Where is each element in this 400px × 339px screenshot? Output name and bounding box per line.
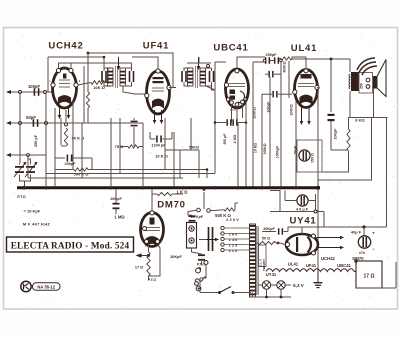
sound waves — [357, 58, 377, 75]
wire DM70 resistor top — [148, 244, 150, 253]
tube UL41 envelope — [295, 70, 318, 108]
mains terminal — [204, 261, 208, 265]
svg-text:2 7: 2 7 — [63, 66, 67, 70]
capacitor 1200pF — [151, 136, 166, 148]
tube UCH42 grid detail — [59, 74, 70, 88]
coil IF1 primary — [108, 68, 114, 86]
tube UY41 cathode arc — [308, 237, 312, 253]
pin UCH42 top-left — [56, 68, 60, 72]
svg-text:100KΩ: 100KΩ — [263, 143, 267, 154]
tube DM70 envelope — [141, 213, 164, 247]
capacitor 100pF — [28, 84, 41, 96]
tube DM70 anode bar — [150, 218, 155, 225]
wire UF41 anode to IF2 — [169, 71, 176, 88]
tube UBC41 grid dashes — [229, 84, 245, 87]
pin DM70 bottom-left — [145, 240, 149, 244]
capacitor jack bottom — [198, 254, 205, 260]
wire 50K top link — [61, 110, 66, 146]
tap circle 123 — [221, 242, 238, 247]
pin UY41 bottom-right — [312, 251, 316, 255]
node 50pF j1 — [19, 122, 22, 125]
wire x238 vertical — [237, 123, 239, 188]
label UCH42 pin digits — [49, 66, 81, 84]
svg-text:UCH42: UCH42 — [321, 256, 335, 261]
node bus j8 — [260, 186, 263, 189]
svg-text:250: 250 — [360, 83, 364, 89]
wire 1200 link — [150, 132, 172, 139]
capacitor IF2 right — [206, 68, 214, 86]
wire UY41 top link — [301, 227, 303, 234]
wire mains to switch — [200, 278, 206, 293]
wire IF1 to UF41 grid — [123, 86, 147, 94]
label output 250 — [360, 83, 364, 89]
thermistor box — [259, 245, 267, 267]
wire UF41 cathode drop 2 — [160, 110, 164, 124]
wire 50pF input row — [11, 122, 55, 124]
svg-text:UF41: UF41 — [143, 41, 169, 52]
wire x215 AVC drop — [214, 62, 216, 174]
tube UCH42 envelope — [53, 68, 77, 108]
pin UCH42 top-right — [69, 68, 73, 72]
svg-text:P.T.O: P.T.O — [148, 278, 157, 282]
label 10KpF row2 — [267, 101, 271, 113]
node y122 left — [214, 121, 217, 124]
wire lamp bottom — [253, 290, 292, 298]
capacitor 50pF — [26, 115, 38, 127]
wire anode link — [78, 68, 108, 85]
node antenna junction — [19, 91, 22, 94]
label PTO DM70 — [148, 278, 157, 282]
wire UL41 anode — [317, 88, 318, 99]
wire UCH42 top pins — [59, 63, 133, 70]
node bus j6 — [213, 186, 216, 189]
jack terminal 2 — [189, 238, 194, 243]
label UCH42 — [48, 41, 83, 52]
capacitor UY41 20KpF — [263, 227, 283, 235]
label 17ohm — [364, 274, 375, 280]
pin UF41 left — [145, 93, 149, 97]
wire 75ohm link — [120, 131, 143, 147]
core IF1 dashed — [116, 66, 118, 88]
pin UF41 top — [156, 69, 160, 73]
pin UL41 right — [315, 85, 319, 89]
svg-text:50 K Ω: 50 K Ω — [72, 136, 86, 141]
resistor 17ohm box — [356, 261, 382, 288]
node filter1 j — [314, 210, 317, 213]
label 47n — [359, 251, 365, 255]
wire x348 link — [322, 118, 349, 173]
svg-text:50 Ω: 50 Ω — [262, 236, 270, 240]
wire x143 vertical — [142, 123, 144, 187]
logo circle — [21, 281, 31, 291]
pin UF41 right — [167, 85, 171, 89]
logo pill — [33, 283, 61, 290]
mains cord squiggle — [195, 277, 207, 285]
wire x174 vertical — [173, 132, 175, 187]
wire x253 vertical — [252, 62, 254, 187]
label 100K vert — [263, 143, 267, 154]
label UF41 — [143, 41, 169, 52]
svg-text:50pF: 50pF — [26, 115, 36, 120]
label 100K left — [253, 107, 257, 119]
wire x318 vertical main — [317, 98, 319, 187]
label PTO left — [17, 195, 26, 199]
wire screen feed — [48, 57, 104, 92]
wire long top bus — [88, 53, 173, 88]
node lamp j2 — [280, 296, 283, 299]
tube UL41 cathode cup — [300, 95, 312, 103]
terminal antenna arrow — [6, 90, 14, 94]
wire x46 vertical — [45, 92, 47, 187]
svg-text:50KΩ: 50KΩ — [189, 146, 199, 150]
capacitor AVC row3 — [262, 91, 292, 98]
wire jack feed — [203, 188, 206, 209]
capacitor UBC41 input pair — [226, 119, 237, 126]
wire UY41 plate feed — [262, 231, 276, 233]
svg-text:17 Ω: 17 Ω — [135, 266, 143, 270]
tube UBC41 plates — [230, 90, 236, 100]
wire x73 vertical — [72, 100, 74, 170]
wire IF2 top feed — [187, 57, 211, 63]
wire x289 vertical — [288, 61, 290, 98]
svg-text:20KpF: 20KpF — [263, 227, 275, 231]
wire 500K link — [214, 203, 239, 211]
node UY41 in — [277, 242, 280, 245]
resistor 50ohm — [258, 236, 276, 244]
wire B+ top right — [292, 58, 350, 60]
node gram j — [27, 154, 30, 157]
label UY41 — [290, 216, 317, 227]
wire x28 vertical — [27, 159, 29, 178]
node IF1 feed — [103, 56, 106, 59]
svg-text:250pF: 250pF — [65, 162, 77, 166]
svg-text:≈ 10 KpF: ≈ 10 KpF — [24, 209, 41, 214]
output transformer frame — [359, 73, 373, 94]
svg-text:40μ F: 40μ F — [351, 230, 362, 235]
label 150ohm — [311, 153, 315, 163]
svg-text:P.T.O: P.T.O — [17, 195, 26, 199]
terminal FM arrow — [6, 121, 11, 125]
tap circle 110 — [221, 248, 238, 253]
wire x20 vertical — [19, 92, 21, 163]
svg-text:2 MΩ: 2 MΩ — [233, 134, 237, 143]
ground pickup — [196, 267, 201, 272]
label MF — [23, 222, 51, 227]
core IF2 dashed — [196, 66, 198, 88]
label heater UBC41 — [337, 263, 351, 268]
terminal gram arrow — [6, 153, 11, 157]
label 10KpF right — [334, 128, 338, 140]
variable capacitor tuning 2 — [25, 162, 38, 177]
node bus j3 — [109, 186, 112, 189]
label 40uF first — [296, 208, 309, 212]
svg-text:1200 pF: 1200 pF — [151, 144, 166, 148]
capacitor 250pF coupling A — [265, 53, 277, 64]
label 50K right — [189, 146, 199, 150]
wire UF41 cathode drop 1 — [153, 110, 157, 124]
label 40uF — [351, 230, 362, 235]
wire speaker bottom loop — [349, 89, 388, 118]
wire x270 vertical — [269, 77, 271, 187]
wire x207 vertical — [206, 170, 208, 179]
wire x372 drop — [371, 118, 373, 181]
wire transformer bottom drop — [252, 293, 254, 298]
svg-text:UL41: UL41 — [288, 262, 299, 267]
wire UY41 out arrow 1 — [316, 236, 344, 240]
pin UL41 top — [304, 69, 308, 73]
svg-text:250 pF: 250 pF — [34, 134, 38, 147]
speaker terminal 2 — [366, 85, 370, 89]
nameplate text — [11, 240, 130, 250]
label heater UF41 — [306, 263, 317, 268]
node lamp j1 — [265, 296, 268, 299]
svg-text:20KpF: 20KpF — [110, 197, 122, 201]
wire y173 row — [46, 173, 215, 175]
wire UBC41 top pin — [237, 57, 265, 70]
wire x215 top — [215, 61, 226, 63]
label UBC41 — [213, 43, 248, 54]
wire x296 vertical — [295, 98, 297, 187]
wire box bottom — [356, 262, 396, 288]
label PTO jack — [197, 263, 206, 267]
wire y180 row — [318, 179, 372, 181]
capacitor electrolytic cathode — [299, 150, 310, 161]
label 10K vert — [254, 143, 258, 153]
arrow DM70 tap — [136, 253, 151, 257]
svg-text:200 pF: 200 pF — [223, 133, 227, 145]
resistor DM70 cathode — [147, 252, 150, 276]
label 500K right — [215, 213, 231, 218]
label DM70 — [157, 200, 186, 211]
svg-text:−: − — [372, 247, 375, 252]
capacitor electrolytic 40uF first — [297, 195, 308, 206]
tuning arrow IF1 — [117, 57, 121, 70]
nameplate box — [7, 237, 134, 252]
wire osc vertical — [87, 53, 89, 80]
wire filter1 top — [270, 190, 280, 192]
capacitor decoupling — [328, 114, 335, 128]
node bus j5 — [181, 186, 184, 189]
wire filter1 left — [279, 191, 281, 212]
wire y227 row — [324, 226, 387, 228]
wire x120 vertical — [119, 118, 121, 174]
pin UBC41 bottom 2 — [235, 103, 239, 107]
capacitor 250pF agc — [65, 155, 77, 166]
label 1K — [176, 190, 188, 195]
wire filter1 bottom — [270, 211, 324, 213]
tube UF41 grid bars — [152, 77, 164, 91]
wire UCH42 cathode arrow 1 — [58, 106, 62, 119]
wire antenna input row — [11, 91, 53, 93]
wire x180 vertical — [179, 150, 181, 178]
label 50uF — [294, 146, 298, 154]
tube UF41 cathode cup — [153, 99, 164, 107]
wire jack link — [191, 221, 193, 224]
wire gram switch — [188, 210, 214, 211]
svg-text:UY41: UY41 — [266, 272, 277, 277]
svg-text:10 K Ω: 10 K Ω — [155, 154, 169, 159]
node 50pF j2 — [45, 122, 48, 125]
svg-text:M F 467 KHZ: M F 467 KHZ — [23, 222, 51, 227]
pin UY41 left — [285, 242, 289, 246]
node bus j7 — [236, 186, 239, 189]
tube UBC41 diode loop — [238, 91, 245, 103]
wire filter1 stubs — [285, 191, 316, 212]
resistor grid stopper — [279, 57, 292, 60]
node grid junction — [44, 91, 47, 94]
node bus j2 — [44, 186, 47, 189]
capacitor IF1 left — [101, 68, 110, 86]
label 20KpF left — [110, 197, 122, 201]
svg-text:UBC41: UBC41 — [337, 263, 351, 268]
ground heater — [314, 271, 323, 288]
svg-text:1 MΩ: 1 MΩ — [114, 215, 125, 220]
label minus — [372, 247, 375, 252]
svg-text:6,3 V: 6,3 V — [293, 283, 305, 288]
pin UBC41 bottom 5 — [244, 97, 247, 100]
wire x324 drop — [323, 212, 325, 228]
svg-text:100pF: 100pF — [28, 84, 41, 89]
tube UY41 grid bar — [296, 237, 298, 252]
resistor 1K — [157, 192, 172, 195]
jack connector box — [187, 223, 197, 249]
jack terminal 1 — [189, 226, 194, 231]
wire caps link — [270, 60, 274, 62]
wire switch row — [200, 292, 218, 294]
label 1M — [114, 215, 125, 220]
wire tap 110 — [224, 249, 249, 251]
resistor 75ohm — [115, 144, 139, 149]
pin UBC41 bottom 3 — [241, 100, 245, 104]
tube UF41 envelope — [147, 71, 170, 114]
wire y123 mid row — [55, 122, 143, 124]
pin UBC41 bottom 4 — [226, 98, 229, 101]
wire x88 resistor drop — [86, 80, 89, 108]
svg-text:DM70: DM70 — [352, 256, 364, 261]
resistor 500K right — [224, 208, 235, 211]
node bus j4 — [141, 186, 144, 189]
svg-text:20 KpF: 20 KpF — [191, 215, 204, 219]
pin DM70 left — [143, 227, 147, 231]
label 63V — [293, 283, 305, 288]
label 220V — [226, 217, 239, 222]
wire y150 row — [165, 149, 199, 151]
switch gram contact 1 — [197, 208, 201, 212]
svg-text:2 2 0 V: 2 2 0 V — [226, 217, 239, 222]
node y227 junction — [362, 225, 365, 228]
pin UCH42 left — [51, 83, 55, 87]
node coupling j2 — [280, 59, 283, 62]
label 200pF vert — [223, 133, 227, 145]
wire UCH42 cathode arrow 2 — [67, 106, 71, 119]
wire UL41 grid top — [292, 57, 306, 70]
tube UL41 grid dashes — [298, 84, 314, 87]
node bus j10 — [294, 186, 297, 189]
pin UL41 left — [293, 90, 297, 94]
label 250pF vertical — [34, 134, 38, 147]
node coupling j1 — [263, 59, 266, 62]
label 8K — [355, 118, 365, 123]
wire UBC41 bottom drops — [232, 104, 243, 123]
wire x318 below bus — [317, 189, 319, 282]
pin UBC41 bottom 1 — [230, 101, 234, 105]
svg-text:17 Ω: 17 Ω — [364, 274, 375, 280]
capacitor 20KpF left — [113, 189, 120, 214]
svg-text:UBC41: UBC41 — [213, 43, 248, 54]
cathode box 150 — [297, 140, 322, 172]
label heater UCH42 — [321, 256, 335, 261]
svg-text:UCH42: UCH42 — [48, 41, 83, 52]
lamp 1 — [262, 281, 270, 289]
capacitor 250pF mid — [131, 121, 138, 131]
svg-text:UL41: UL41 — [291, 43, 317, 54]
wire 50ohm left — [256, 242, 259, 244]
label termist — [262, 259, 266, 272]
label OLA — [259, 258, 263, 267]
label heater DM70 — [352, 256, 364, 261]
svg-text:ELECTA RADIO - Mod. 524: ELECTA RADIO - Mod. 524 — [11, 240, 130, 250]
label 2M vert — [233, 134, 237, 143]
wire x246 vertical — [245, 98, 247, 187]
svg-text:150 Ω: 150 Ω — [311, 153, 315, 163]
wire filter cap drop — [363, 227, 365, 236]
wire IF1 cap drop — [103, 57, 105, 68]
wire y169 row — [55, 169, 207, 171]
svg-text:100KΩ: 100KΩ — [290, 104, 294, 116]
wire 1K link — [152, 193, 183, 195]
node bus right end — [316, 186, 320, 190]
tube UY41 envelope — [286, 234, 318, 255]
label 10KpF mid — [0, 0, 1, 1]
resistor 50K — [64, 128, 67, 146]
wire decoupling lower — [331, 128, 348, 150]
capacitor IF2 left — [181, 68, 190, 86]
pin DM70 bottom-right — [156, 240, 160, 244]
tube DM70 cathode cup — [146, 237, 158, 246]
wire x253 top — [253, 61, 265, 63]
node y122 right — [245, 121, 248, 124]
node IF2 top junction — [207, 65, 210, 68]
switch gram contact 2 — [207, 209, 211, 213]
capacitor AVC row2 — [265, 71, 281, 78]
capacitor jack top — [188, 212, 204, 222]
wire mains drop — [205, 265, 207, 279]
svg-text:300KΩ: 300KΩ — [283, 61, 287, 73]
label heater UL41 — [288, 262, 299, 267]
coil IF1 secondary — [120, 68, 126, 86]
wire x199 vertical — [198, 150, 200, 178]
coil IF2 secondary — [200, 68, 206, 86]
wire pickup drop — [201, 261, 203, 265]
wire tap 123 — [224, 244, 249, 246]
label UBC41 pin digits — [230, 108, 236, 112]
wire x386 vertical — [386, 118, 388, 228]
wire cap to top — [284, 227, 325, 232]
wire x111 vertical — [110, 118, 112, 187]
wire HT bus — [17, 186, 320, 189]
wire jack bottom — [192, 248, 202, 254]
pin DM70 top — [150, 211, 154, 215]
label UL41 — [291, 43, 317, 54]
svg-text:8 KΩ: 8 KΩ — [355, 118, 365, 123]
wire x55 vertical — [54, 108, 56, 187]
label 50K — [72, 136, 86, 141]
wire UL41 cathode arrow 2 — [307, 107, 311, 125]
wire decoupling drop — [330, 59, 332, 112]
wire IF2 to UBC41 grid — [206, 86, 215, 90]
node bus j9 — [279, 186, 282, 189]
tap circle 140 — [221, 237, 238, 242]
